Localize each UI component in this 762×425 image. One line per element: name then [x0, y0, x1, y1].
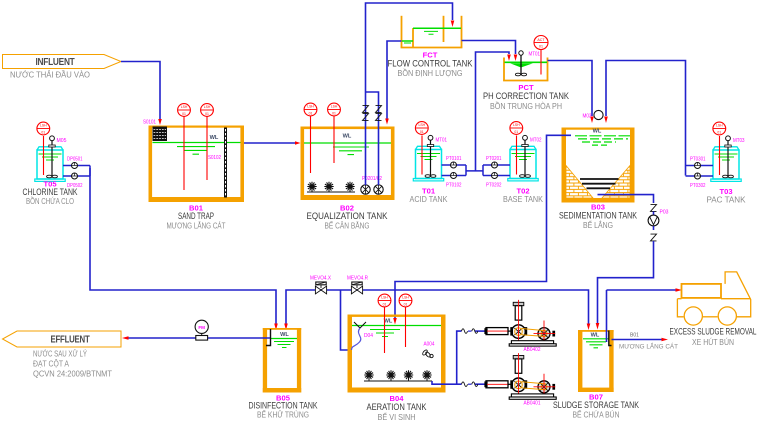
svg-text:BỒN TRUNG HÒA PH: BỒN TRUNG HÒA PH: [490, 100, 562, 111]
level switch LSH-B04-2: [399, 294, 412, 347]
wire acid/base dosing to PCT: [476, 52, 510, 171]
valve below P03: [651, 226, 657, 241]
svg-text:INFLUENT: INFLUENT: [36, 57, 75, 68]
svg-text:B01: B01: [630, 333, 639, 339]
arrow into FCT: [451, 21, 455, 28]
tank FCT: [401, 16, 463, 48]
wire FCT to PCT: [462, 41, 516, 55]
wire pumps to FCT riser: [366, 3, 453, 185]
svg-text:MƯƠNG LẮNG CÁT: MƯƠNG LẮNG CÁT: [619, 343, 678, 351]
flow meter FM: [195, 320, 208, 340]
wire pump P0202 riser: [366, 92, 379, 185]
static mixer M03: [583, 110, 604, 119]
svg-text:WL: WL: [591, 333, 600, 339]
label T02 BASE TANK: [503, 187, 543, 205]
wire T02 pump suction/discharge: [476, 165, 511, 176]
svg-text:BỂ LẮNG: BỂ LẮNG: [583, 219, 613, 230]
motor valve MEVO4.X: [310, 276, 331, 294]
wire B05 to effluent: [128, 337, 270, 339]
sludge lines B03: [580, 179, 619, 188]
label B05 DISINFECTION TANK: [249, 394, 318, 420]
svg-text:MT03: MT03: [733, 138, 745, 144]
svg-text:FLOW CONTROL TANK: FLOW CONTROL TANK: [388, 59, 473, 69]
tank B07: [578, 330, 614, 392]
water level PCT: [505, 62, 548, 67]
arrow into truck: [676, 288, 683, 292]
dosing pump DP0502: [72, 173, 78, 179]
mixer PCT: [515, 51, 540, 76]
wire B04 decant header: [286, 290, 589, 324]
svg-text:NƯỚC THẢI ĐẦU VÀO: NƯỚC THẢI ĐẦU VÀO: [10, 69, 90, 80]
svg-text:DP0502: DP0502: [67, 183, 83, 189]
wire B03 sludge to P03: [598, 195, 654, 203]
svg-text:AERATION TANK: AERATION TANK: [367, 402, 427, 412]
effluent label EFFLUENT: [3, 331, 122, 379]
level switch T01: [415, 122, 428, 135]
svg-text:WL: WL: [210, 135, 219, 141]
svg-text:WL: WL: [593, 129, 602, 135]
wire chlorine dosing to B05: [90, 168, 276, 324]
svg-text:BASE TANK: BASE TANK: [503, 194, 543, 204]
label B03 SEDIMENTATION TANK: [559, 203, 637, 231]
wire B07 to truck: [607, 289, 679, 291]
level switch LSH-B04-1: [378, 294, 391, 353]
arrow chlorine into B05: [274, 324, 278, 331]
svg-text:ACT: ACT: [537, 38, 545, 42]
svg-text:PT0102: PT0102: [446, 183, 462, 189]
wire PAC dosing to B03: [606, 61, 686, 176]
svg-text:SAND TRAP: SAND TRAP: [178, 211, 214, 221]
wire air upper branch: [457, 331, 486, 384]
valve above P03: [651, 205, 657, 212]
diffusers B02: [307, 182, 355, 192]
svg-text:XE HÚT BÚN: XE HÚT BÚN: [692, 337, 734, 347]
pump P0201: [361, 185, 370, 194]
arrow into B02: [295, 141, 301, 145]
arrow B03 effluent into B04: [393, 318, 397, 325]
fan A004: [422, 342, 435, 358]
label T03 PAC TANK: [707, 187, 746, 205]
level switch LSH-B02-2: [328, 103, 341, 163]
bar screen S0102: [208, 128, 227, 198]
svg-text:D04: D04: [364, 333, 373, 339]
svg-text:PT0301: PT0301: [690, 157, 706, 163]
blower AB0401: [484, 353, 556, 399]
svg-text:MT02: MT02: [530, 138, 542, 144]
label B07 SLUDGE STORAGE TANK: [553, 393, 639, 420]
svg-text:AB0402: AB0402: [524, 347, 541, 353]
motor valve MEVO4.R: [347, 276, 368, 294]
wire T05 pump suction/discharge: [63, 166, 90, 177]
svg-text:BỒN CHỨA CLO: BỒN CHỨA CLO: [26, 195, 74, 206]
label T05 CHLORINE TANK: [23, 180, 78, 207]
svg-text:PT0201: PT0201: [486, 156, 502, 162]
wire PCT to B03: [548, 61, 593, 117]
svg-text:BỒN ĐỊNH LƯỢNG: BỒN ĐỊNH LƯỢNG: [398, 67, 463, 78]
suction pipe into B07: [606, 290, 608, 342]
svg-text:M03: M03: [583, 114, 592, 120]
arrow dosing into PCT: [507, 55, 511, 62]
pump P03: [648, 210, 668, 226]
water level B02: [304, 134, 391, 155]
level switch LSH-B02-1: [304, 103, 317, 173]
label B01 SAND TRAP: [167, 204, 226, 231]
water level FCT: [402, 28, 461, 43]
wire B07 decant return to B01: [612, 339, 664, 341]
svg-text:PT0101: PT0101: [446, 156, 462, 162]
svg-text:MT01: MT01: [436, 138, 448, 144]
level switch T05: [37, 122, 50, 135]
svg-text:AB0401: AB0401: [524, 401, 541, 407]
svg-text:ACID TANK: ACID TANK: [410, 194, 448, 204]
tank T03 PAC: [711, 136, 741, 182]
water level B01: [153, 135, 241, 154]
truck excess sludge removal: [677, 272, 750, 325]
arrow effluent: [122, 336, 129, 340]
hopper brick left B03: [566, 166, 593, 199]
svg-text:MƯƠNG LẮNG CÁT: MƯƠNG LẮNG CÁT: [167, 221, 226, 231]
arrow PCT line into B03: [590, 117, 594, 124]
svg-text:SLUDGE STORAGE TANK: SLUDGE STORAGE TANK: [553, 400, 639, 410]
label B02 EQUALIZATION TANK: [307, 204, 388, 231]
wire T03 pump suction/discharge: [686, 166, 714, 177]
label B04 AERATION TANK: [367, 394, 427, 422]
baffle B07: [609, 331, 612, 346]
influent label INFLUENT: [3, 55, 122, 80]
arrow FCT line into PCT: [514, 55, 518, 62]
arrow FCT return into B02: [385, 119, 389, 125]
svg-text:EQUALIZATION TANK: EQUALIZATION TANK: [307, 211, 388, 221]
arrow sludge into B07: [596, 323, 600, 330]
svg-text:MEVO4.R: MEVO4.R: [347, 276, 368, 282]
check valves on P0201 riser: [363, 106, 369, 121]
arrow PAC line into B03: [604, 117, 608, 124]
level switch LSH-B01-2: [201, 104, 214, 180]
hopper brick right B03: [602, 166, 630, 199]
arrow decant into B05: [284, 324, 288, 331]
svg-text:BỂ VI SINH: BỂ VI SINH: [378, 411, 416, 422]
svg-text:SEDIMENTATION TANK: SEDIMENTATION TANK: [559, 211, 637, 221]
svg-text:FM: FM: [198, 325, 205, 330]
label FCT FLOW CONTROL TANK: [388, 51, 473, 79]
svg-text:BỂ KHỬ TRÙNG: BỂ KHỬ TRÙNG: [257, 409, 309, 420]
arrow decant return: [662, 338, 669, 342]
wire B01 to B02: [244, 142, 295, 144]
dosing pump DP0501: [72, 163, 78, 169]
wire decant drop into B04: [341, 290, 352, 350]
wire B03 effluent to B04: [395, 135, 571, 318]
dosing pump PT0201: [492, 162, 498, 168]
tank B05: [263, 328, 301, 393]
blower AB0402: [484, 300, 556, 346]
arrow decant into B07: [587, 324, 591, 331]
svg-text:S0101: S0101: [143, 120, 156, 126]
label PCT PH CORRECTION TANK: [483, 83, 569, 111]
svg-text:M05: M05: [57, 138, 67, 144]
svg-text:EXCESS SLUDGE REMOVAL: EXCESS SLUDGE REMOVAL: [670, 327, 757, 337]
tank T01 acid: [413, 135, 443, 181]
tank B02: [301, 127, 395, 201]
label T01 ACID TANK: [410, 187, 448, 205]
svg-text:EFFLUENT: EFFLUENT: [51, 335, 90, 346]
water level B05: [271, 332, 297, 348]
svg-text:BỂ CÂN BẰNG: BỂ CÂN BẰNG: [325, 220, 370, 231]
screen S0101: [143, 120, 167, 142]
wire air lower branch: [446, 383, 487, 385]
water level B04: [352, 319, 441, 337]
svg-text:MT01: MT01: [529, 52, 541, 58]
dosing pump PT0102: [451, 173, 457, 179]
arrow into B01 screen: [158, 119, 162, 125]
svg-text:PH CORRECTION TANK: PH CORRECTION TANK: [483, 91, 569, 101]
wire P03 to B07: [598, 241, 654, 323]
check valves on P0202 riser: [376, 106, 382, 121]
dosing pump PT0101: [451, 162, 457, 168]
svg-text:WL: WL: [280, 332, 289, 338]
wire T01 pump suction/discharge: [442, 165, 476, 176]
diffusers B04: [364, 370, 432, 381]
svg-text:WL: WL: [343, 134, 352, 140]
wire influent to B01: [121, 62, 160, 120]
svg-text:P03: P03: [660, 210, 669, 216]
dosing pump PT0302: [695, 173, 701, 179]
baffle B05: [266, 329, 271, 346]
tank T02 base: [508, 135, 538, 181]
tank T05 chlorine: [35, 136, 65, 182]
svg-text:01: 01: [539, 44, 543, 48]
flexible coupling lower: [462, 382, 478, 387]
svg-text:S0102: S0102: [208, 155, 221, 161]
dosing pump PT0202: [492, 173, 498, 179]
pump P0202: [374, 185, 383, 194]
svg-text:PT0202: PT0202: [486, 183, 502, 189]
svg-text:PT0302: PT0302: [690, 183, 706, 189]
svg-text:NƯỚC SAU XỬ LÝ: NƯỚC SAU XỬ LÝ: [33, 348, 87, 359]
level switch T02: [510, 122, 523, 135]
svg-text:MEVO4.X: MEVO4.X: [310, 276, 331, 282]
level switch T03: [713, 122, 726, 135]
decant hose D04: [352, 322, 374, 350]
pH analyser ACT: [534, 36, 548, 75]
wire FCT return to B02: [387, 41, 402, 119]
svg-text:BỂ CHỨA BÚN: BỂ CHỨA BÚN: [573, 409, 620, 420]
flexible coupling upper: [462, 329, 478, 334]
water level B07: [583, 333, 609, 348]
tank PCT: [503, 58, 548, 81]
svg-text:ĐẠT CỘT A: ĐẠT CỘT A: [33, 359, 69, 369]
level switch LSH-B01-1: [178, 104, 191, 190]
label EXCESS SLUDGE REMOVAL: [670, 327, 757, 348]
svg-text:QCVN 24:2009/BTNMT: QCVN 24:2009/BTNMT: [33, 369, 112, 379]
water level B03: [575, 129, 630, 146]
svg-text:A004: A004: [424, 342, 435, 348]
tank B04: [348, 315, 446, 393]
dosing pump PT0301: [695, 163, 701, 169]
tank B03: [562, 128, 635, 203]
svg-text:PAC TANK: PAC TANK: [707, 195, 746, 205]
svg-text:DP0501: DP0501: [67, 157, 83, 163]
wire air main into B04: [432, 381, 446, 384]
tank B01: [149, 126, 245, 203]
